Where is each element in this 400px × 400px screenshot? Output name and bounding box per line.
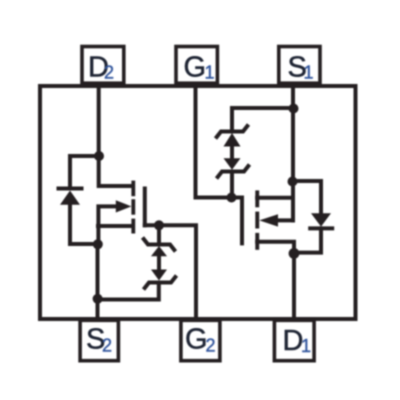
wire Q1 drain lead to node G	[257, 242, 294, 253]
node C junction dot	[93, 294, 103, 304]
svg-text:1: 1	[205, 63, 215, 83]
Q2 channel bottom segment	[131, 219, 135, 234]
wire left zener chain bottom to node C	[98, 283, 159, 300]
svg-text:G: G	[184, 52, 207, 84]
node H junction dot	[227, 193, 237, 203]
Q1 body arrow	[259, 214, 278, 226]
svg-text:1: 1	[304, 63, 314, 83]
Q1 gate plate	[240, 198, 244, 244]
zener Z1 (left chain top)	[143, 238, 176, 252]
pin box D2	[82, 47, 124, 84]
pin box G1	[176, 47, 217, 84]
Q1 channel middle segment	[255, 212, 259, 229]
zener Z3 (right chain top)	[216, 125, 249, 139]
svg-text:G: G	[185, 324, 208, 356]
pin box S1	[279, 47, 320, 84]
transistor Q1 (right MOSFET)	[255, 190, 278, 249]
wire Q2 gate lead to G2 pin	[145, 225, 196, 318]
wire Q1 source lead	[257, 196, 293, 200]
svg-text:2: 2	[206, 336, 216, 356]
svg-text:2: 2	[104, 63, 114, 83]
wire below body diode D2 to node B	[70, 205, 98, 245]
zener Z2 (left chain bottom)	[151, 270, 167, 281]
svg-text:2: 2	[102, 336, 112, 356]
wire D1: node G down to D1 pin	[292, 253, 296, 318]
diode body D of Q1 (right)	[308, 213, 334, 228]
node F junction dot	[288, 177, 298, 187]
wire D2 pin down to drain lead of Q2	[99, 86, 132, 186]
svg-text:1: 1	[301, 336, 311, 356]
diode body D of Q2 (left)	[57, 189, 84, 205]
node B junction dot	[93, 239, 103, 249]
pin box G2	[181, 320, 220, 360]
wire left zener chain top	[157, 225, 161, 243]
Q2 gate plate	[143, 189, 147, 226]
Q2 channel top segment	[131, 181, 135, 197]
node G junction dot	[289, 248, 300, 259]
wire Q2 body arrow lead and tie-down	[98, 206, 116, 244]
wire Q1 body arrow lead	[278, 218, 293, 222]
Q2 channel middle segment	[131, 199, 135, 215]
node E junction dot	[289, 104, 299, 114]
wire S1 pin down through nodes E,F to Q1 leads	[291, 86, 295, 221]
wire right zener branch from node E	[232, 108, 293, 130]
wire body-diode branch left from node A	[70, 156, 99, 187]
node A junction dot	[94, 151, 104, 161]
pin box D1	[274, 320, 314, 360]
Q1 channel top segment	[255, 190, 259, 207]
wire G1 pin down and right to Q1 gate	[196, 86, 243, 198]
package outline	[40, 86, 356, 319]
pin box S2	[80, 320, 118, 360]
Q2 body arrow	[116, 200, 132, 212]
zener Z4 (right chain bottom)	[224, 158, 241, 170]
wire right diode bottom to node G	[294, 228, 321, 252]
wire S2: node B down to S2 pin	[96, 244, 100, 319]
wire right zener chain bottom to node H	[230, 172, 234, 198]
wire Q2 source lead	[98, 224, 131, 228]
wire between right zeners	[230, 146, 234, 159]
node on G2 gate lead junction dot	[154, 220, 164, 230]
wire right diode branch from node F	[293, 181, 321, 214]
wire between left zeners	[157, 255, 161, 270]
transistor Q2 (left MOSFET)	[116, 181, 135, 234]
Q1 channel bottom segment	[255, 233, 259, 250]
